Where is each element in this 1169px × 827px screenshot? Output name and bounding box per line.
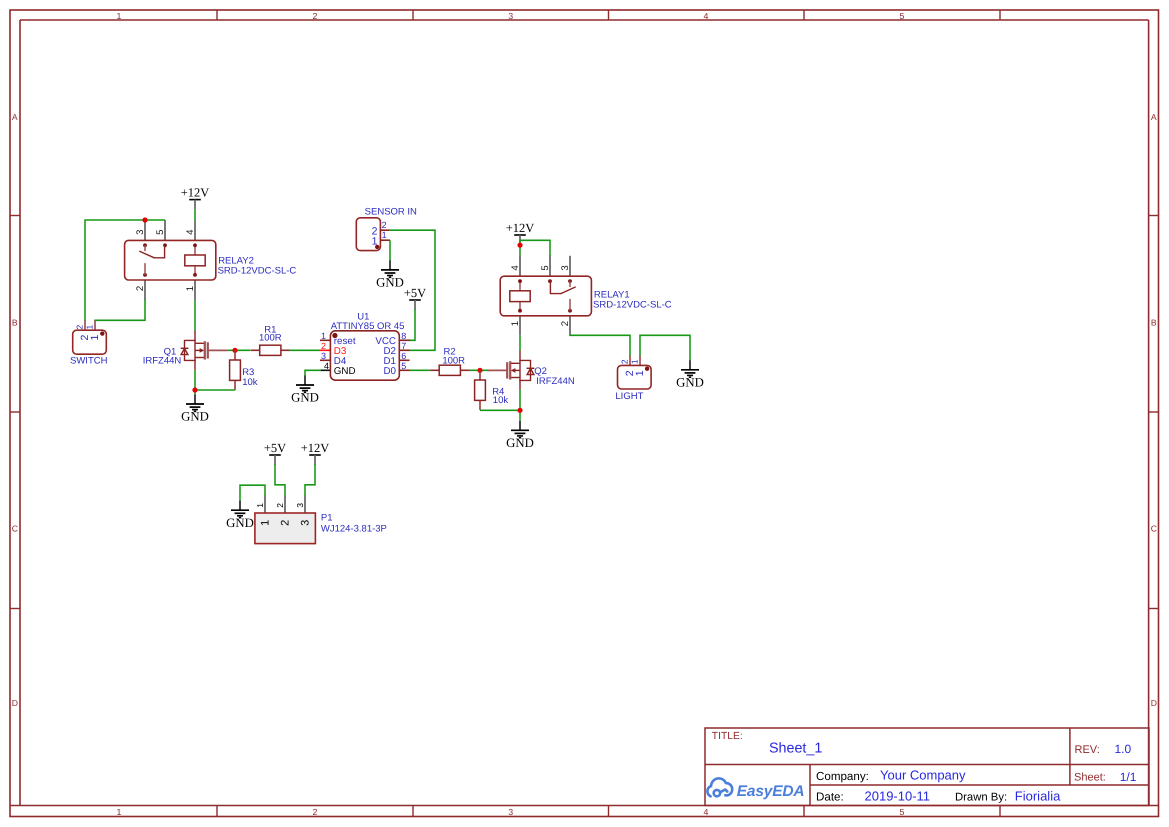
wire sensor pin2 to U1 pin7 (D2) <box>390 230 435 350</box>
svg-text:GND: GND <box>676 376 704 390</box>
svg-text:LIGHT: LIGHT <box>615 391 643 402</box>
junction node (195,390) <box>192 387 197 392</box>
svg-text:2: 2 <box>275 503 285 508</box>
EasyEDA logo <box>707 778 732 796</box>
svg-text:1: 1 <box>185 286 196 291</box>
svg-text:100R: 100R <box>442 355 465 366</box>
svg-text:2: 2 <box>620 359 630 364</box>
connector SWITCH pins <box>84 320 86 330</box>
connector P1 <box>255 513 316 544</box>
wire R2 to Q2 gate <box>469 369 490 371</box>
svg-text:2019-10-11: 2019-10-11 <box>865 789 931 804</box>
svg-text:2: 2 <box>280 520 292 526</box>
wire U1 pin4 (GND) to ground <box>305 370 320 375</box>
svg-text:TITLE:: TITLE: <box>712 731 743 742</box>
ic U1 ATTINY85 <box>330 331 399 380</box>
svg-text:1: 1 <box>255 503 265 508</box>
svg-text:7: 7 <box>401 341 406 351</box>
wire Q2 source to ground junction <box>519 390 521 421</box>
transistor Q2 <box>519 350 521 360</box>
svg-text:C: C <box>12 524 18 534</box>
svg-text:1: 1 <box>382 230 387 240</box>
ground flag (Q1 source) <box>194 395 196 405</box>
connector LIGHT <box>618 365 652 389</box>
svg-text:Sheet_1: Sheet_1 <box>769 740 822 756</box>
svg-text:1.0: 1.0 <box>1115 742 1132 756</box>
relay RELAY1 <box>500 276 591 316</box>
svg-text:1: 1 <box>85 325 95 330</box>
svg-text:2: 2 <box>313 11 318 21</box>
svg-text:+12V: +12V <box>301 441 330 455</box>
svg-text:5: 5 <box>540 265 551 270</box>
svg-text:6: 6 <box>401 351 406 361</box>
svg-text:5: 5 <box>900 11 905 21</box>
svg-text:C: C <box>1151 524 1157 534</box>
wire Q1 source to ground junction <box>194 370 196 395</box>
junction node (520,410) <box>517 408 522 413</box>
svg-text:5: 5 <box>401 361 406 371</box>
wire R4 bottom to ground junction <box>480 409 520 411</box>
svg-text:3: 3 <box>508 807 513 817</box>
svg-text:P1: P1 <box>321 512 333 523</box>
svg-text:2: 2 <box>560 321 571 326</box>
wire +12V to relay1 pin4 <box>519 240 521 255</box>
svg-text:2: 2 <box>382 220 387 230</box>
svg-text:B: B <box>12 318 18 328</box>
svg-text:Date:: Date: <box>816 791 844 804</box>
resistor R1 <box>251 349 260 351</box>
svg-text:5: 5 <box>155 230 166 235</box>
wire relay1 pin1 to Q2 drain <box>519 335 521 350</box>
junction node (520,245) <box>517 243 522 248</box>
svg-text:REV:: REV: <box>1075 744 1100 756</box>
wire +12V to relay1 pin5 <box>520 240 550 255</box>
svg-text:D: D <box>12 698 18 708</box>
svg-text:+5V: +5V <box>404 286 426 300</box>
svg-text:D0: D0 <box>383 366 396 377</box>
connector SENSOR IN pins <box>380 229 390 231</box>
relay RELAY1 pins <box>519 255 521 276</box>
svg-text:A: A <box>1151 112 1157 122</box>
svg-text:GND: GND <box>376 276 404 290</box>
svg-text:Fiorialia: Fiorialia <box>1015 789 1061 804</box>
ground flag (sensor) <box>389 260 391 270</box>
resistor R3 <box>234 350 236 360</box>
svg-text:3: 3 <box>560 265 571 270</box>
wire +12V to relay2 pin4 <box>194 210 196 221</box>
svg-text:ATTINY85 OR 45: ATTINY85 OR 45 <box>331 321 405 332</box>
connector LIGHT pins <box>629 356 631 366</box>
svg-text:1: 1 <box>372 235 378 247</box>
relay RELAY2 pins <box>144 220 146 241</box>
svg-text:3: 3 <box>508 11 513 21</box>
wire relay2 pin2 to switch pin1 <box>95 300 145 320</box>
svg-text:SENSOR IN: SENSOR IN <box>365 207 417 218</box>
svg-text:10k: 10k <box>242 377 258 388</box>
svg-text:4: 4 <box>324 361 329 371</box>
wire relay1 pin2 to light pin2 <box>570 335 630 356</box>
svg-text:1: 1 <box>89 335 101 341</box>
svg-text:B: B <box>1151 318 1157 328</box>
wire sensor pin1 to ground <box>389 240 391 260</box>
svg-text:IRFZ44N: IRFZ44N <box>143 356 182 367</box>
connector SWITCH <box>73 330 107 354</box>
connector P1 pins <box>264 496 266 513</box>
svg-text:SWITCH: SWITCH <box>70 355 108 366</box>
svg-text:GND: GND <box>334 366 356 377</box>
svg-text:D: D <box>1151 698 1157 708</box>
svg-text:IRFZ44N: IRFZ44N <box>536 376 575 387</box>
wire +5V to P1 pin2 <box>275 465 285 496</box>
wire switch pin2 to relay junction <box>85 220 145 320</box>
wire light pin1 to ground <box>640 335 690 360</box>
junction node (480,370) <box>477 368 482 373</box>
svg-text:+12V: +12V <box>506 221 535 235</box>
junction node (145,220) <box>142 217 147 222</box>
svg-text:4: 4 <box>704 11 709 21</box>
resistor R2 <box>430 369 439 371</box>
title block <box>705 728 1149 806</box>
svg-text:5: 5 <box>900 807 905 817</box>
wire U1 pin5 (D0) to R2 <box>410 369 430 371</box>
svg-text:1: 1 <box>117 807 122 817</box>
svg-text:Company:: Company: <box>816 770 869 783</box>
resistor R4 <box>479 370 481 380</box>
svg-text:+12V: +12V <box>181 186 210 200</box>
ground flag (Q2 source) <box>519 421 521 431</box>
svg-text:A: A <box>12 112 18 122</box>
svg-text:1: 1 <box>634 370 646 376</box>
svg-text:2: 2 <box>75 325 85 330</box>
svg-text:WJ124-3.81-3P: WJ124-3.81-3P <box>321 524 387 535</box>
svg-text:Drawn By:: Drawn By: <box>955 792 1007 804</box>
svg-text:GND: GND <box>506 436 534 450</box>
wire junction to relay2 pin5 <box>145 219 165 221</box>
svg-text:1: 1 <box>630 359 640 364</box>
wire relay2 pin1 to Q1 drain <box>194 300 196 330</box>
ground flag (light) <box>689 360 691 370</box>
svg-text:+5V: +5V <box>264 441 286 455</box>
svg-text:Your Company: Your Company <box>880 768 966 783</box>
junction node (235,350) <box>232 348 237 353</box>
svg-text:3: 3 <box>321 351 326 361</box>
svg-text:2: 2 <box>135 286 146 291</box>
svg-text:SRD-12VDC-SL-C: SRD-12VDC-SL-C <box>218 266 297 277</box>
transistor Q1 <box>194 330 196 340</box>
ground flag (U1) <box>304 376 306 386</box>
ic U1 pins <box>320 339 330 341</box>
svg-text:1/1: 1/1 <box>1120 770 1137 784</box>
ground flag (P1) <box>239 501 241 511</box>
svg-text:SRD-12VDC-SL-C: SRD-12VDC-SL-C <box>593 300 672 311</box>
svg-text:2: 2 <box>321 341 326 351</box>
svg-text:3: 3 <box>295 503 305 508</box>
svg-text:3: 3 <box>300 520 312 526</box>
wire P1 pin1 to ground <box>240 485 265 501</box>
wire R3 bottom to ground junction <box>195 389 235 391</box>
connector SENSOR IN <box>356 218 380 251</box>
svg-text:1: 1 <box>510 321 521 326</box>
wire Q1 gate to R1 <box>228 349 251 351</box>
svg-text:GND: GND <box>226 516 254 530</box>
svg-text:GND: GND <box>291 391 319 405</box>
svg-text:Sheet:: Sheet: <box>1074 772 1106 784</box>
svg-text:1: 1 <box>117 11 122 21</box>
svg-text:1: 1 <box>260 520 272 526</box>
svg-text:1: 1 <box>321 331 326 341</box>
svg-text:10k: 10k <box>493 395 509 406</box>
wire +12V to P1 pin3 <box>305 465 315 496</box>
svg-text:100R: 100R <box>259 332 282 343</box>
svg-text:EasyEDA: EasyEDA <box>737 783 805 800</box>
svg-text:8: 8 <box>401 331 406 341</box>
relay RELAY2 <box>125 240 216 280</box>
svg-text:4: 4 <box>704 807 709 817</box>
wire +5V to U1 pin8 (VCC) <box>410 310 415 340</box>
svg-text:GND: GND <box>181 410 209 424</box>
svg-text:2: 2 <box>313 807 318 817</box>
svg-text:4: 4 <box>510 265 521 271</box>
svg-text:3: 3 <box>135 230 146 235</box>
svg-text:4: 4 <box>185 229 196 235</box>
wire R1 to U1 pin2 <box>289 349 320 351</box>
